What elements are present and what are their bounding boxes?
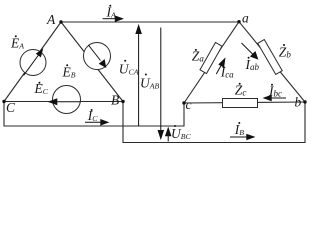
svg-text:Ibc: Ibc [268, 83, 282, 98]
wire line C (C to c) [4, 102, 184, 127]
wire line B (B to b) [123, 102, 305, 143]
wire source side C-B [4, 101, 123, 103]
wire load side c-b [184, 102, 305, 103]
node c dot [182, 101, 185, 104]
svg-text:Zb: Zb [279, 44, 292, 59]
node B dot [121, 100, 124, 103]
voltage arrow U_CA [136, 26, 141, 127]
current arrow I_ca [216, 59, 225, 74]
current arrow I_B [230, 134, 254, 139]
svg-text:IA: IA [106, 5, 117, 20]
wire line A (top, A to a) [61, 21, 239, 23]
svg-text:UBC: UBC [171, 126, 192, 141]
node a dot [237, 20, 240, 23]
wire source side A-C [4, 22, 61, 102]
impedance Z_c box [223, 99, 258, 108]
svg-text:Ica: Ica [220, 65, 234, 80]
svg-text:Za: Za [192, 49, 205, 64]
svg-text:C: C [6, 100, 16, 115]
source E_B emf arrow [88, 45, 105, 67]
current arrow I_ab [242, 43, 258, 59]
wire source side A-B [61, 22, 123, 102]
svg-text:c: c [186, 97, 192, 112]
svg-text:EB: EB [62, 64, 76, 79]
svg-text:EC: EC [34, 81, 49, 96]
svg-text:A: A [46, 12, 56, 27]
impedance Z_b box [258, 40, 282, 75]
source E_A circle [20, 50, 46, 76]
source E_A emf arrow [24, 50, 43, 76]
current arrow I_C [85, 120, 108, 125]
current arrow I_bc [264, 95, 286, 100]
impedance Z_a box [200, 42, 222, 73]
source E_B circle [84, 43, 111, 70]
svg-text:B: B [111, 93, 119, 108]
svg-text:Iab: Iab [245, 57, 260, 72]
svg-text:Zc: Zc [235, 83, 247, 98]
svg-text:IB: IB [234, 122, 245, 137]
svg-text:a: a [242, 11, 249, 26]
svg-text:EA: EA [10, 36, 24, 51]
voltage arrow U_AB [158, 28, 163, 139]
node b dot [303, 100, 306, 103]
source E_C circle [53, 86, 81, 114]
node C dot [2, 100, 5, 103]
source E_C emf arrow [49, 99, 80, 105]
wire load side a-b [239, 22, 305, 102]
svg-text:UCA: UCA [119, 61, 139, 76]
svg-text:UAB: UAB [140, 75, 160, 90]
current arrow I_A [103, 16, 123, 21]
svg-text:b: b [295, 95, 302, 110]
voltage arrow U_BC [166, 128, 171, 141]
node A dot [59, 20, 62, 23]
wire load side a-c [184, 22, 239, 103]
